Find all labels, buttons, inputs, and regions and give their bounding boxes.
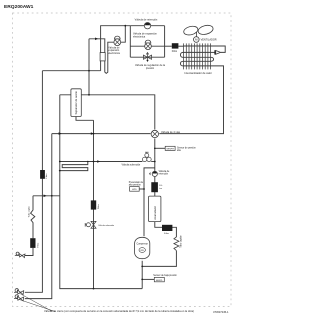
svg-text:Tubo capilar: Tubo capilar [27,206,30,218]
svg-text:SENPH: SENPH [166,148,174,150]
flow arrows [59,38,101,163]
check valve (top branch) [144,23,150,29]
wire middle branch y46 [130,45,164,47]
solenoid valve 2 on x93.5 line [85,221,96,228]
junction dot service line [51,195,53,197]
wire accumulator bottom to capillary [155,222,177,237]
wire 4-way south to accumulator [154,139,156,197]
svg-text:electrónica: electrónica [108,52,120,55]
wire compressor bottom drop [141,261,143,289]
wire SENPL branch [142,278,154,280]
wire EEV branch box left rail [129,26,131,58]
distributor [214,50,220,54]
muffler 2 [162,225,172,231]
solenoid valve [142,152,151,161]
svg-text:Separador de aceite: Separador de aceite [74,91,78,115]
capillary zigzag [174,237,179,251]
wire x93.5 drop [93,120,95,288]
EEV1 electronic expansion valve (middle branch) [145,40,151,43]
svg-text:alta presión: alta presión [129,184,142,187]
svg-text:Presostato de: Presostato de [129,181,144,184]
fan motor M [195,32,197,37]
flow arrow service line [44,195,47,198]
svg-text:HPS: HPS [132,189,137,191]
stop valve 2 (liquid line) [14,295,55,312]
svg-text:Válvula solenoide: Válvula solenoide [122,163,141,166]
compressor [135,237,150,258]
svg-text:Sensor de baja presión: Sensor de baja presión [153,274,177,277]
wire bottom branch y57.2 [130,56,164,58]
oil separator (tall rect on discharge line) [71,89,81,117]
wire capillary return to compressor bottom [142,251,176,267]
svg-text:INV: INV [140,250,144,252]
wire x51.8 drop [25,134,52,299]
svg-text:M: M [195,38,198,42]
svg-text:Compresor: Compresor [137,243,149,246]
dashed unit border [13,13,232,307]
svg-text:Filtro: Filtro [97,204,100,209]
wire long horizontal y94.8 [60,95,155,130]
wire service riser to valve3 [20,248,33,256]
subcool hx serpentine [60,162,88,171]
EEV2 electronic expansion valve (subcool) [114,36,120,39]
svg-text:alta: alta [177,149,181,152]
wire oil-separator drain [76,117,94,121]
filter on service riser [30,238,35,248]
muffler 1 [151,182,158,192]
wire top branch line to left corner [101,26,131,71]
svg-text:ERQ200AW1: ERQ200AW1 [4,4,34,10]
wire bypass vertical x89 [88,39,90,95]
stop valve 1 (gas line) [14,289,52,312]
svg-text:Sensor de presión: Sensor de presión [177,146,196,149]
fan propeller [183,25,199,36]
svg-text:Válvula de 4 vías: Válvula de 4 vías [161,131,181,134]
svg-text:Válvula de retención: Válvula de retención [135,19,158,22]
svg-text:Intercambiador de calor: Intercambiador de calor [185,71,212,75]
svg-text:Válvula de: Válvula de [159,171,170,173]
svg-text:Válvula solenoide: Válvula solenoide [98,225,115,227]
wire 4-way east from HX [159,66,223,134]
wire top branch y25.7 [130,25,164,27]
wire service riser x33 with capillary kink [31,196,35,238]
svg-text:4TW27245-1: 4TW27245-1 [213,310,229,314]
wire HPS branch [139,188,144,190]
wire EEV branch box right rail [164,26,166,58]
wire SENPH branch [155,147,165,149]
heat exchanger tube rows [180,46,213,66]
svg-text:Fil-: Fil- [159,185,162,187]
svg-text:VENTILADOR: VENTILADOR [201,39,217,42]
svg-text:Filtro: Filtro [172,50,178,53]
wire left drop x59.8 [60,95,142,289]
svg-text:Tubo capilar: Tubo capilar [180,235,183,248]
accumulator [149,196,161,222]
filter on liquid drop [40,170,45,179]
left U-bend rows4-5 [180,61,183,66]
filter (liquid line to HX) [172,43,179,48]
svg-text:Válvula de cierre (con compuer: Válvula de cierre (con compuerta de serv… [44,309,194,313]
svg-text:Acumulador: Acumulador [153,206,157,220]
svg-text:Filtro: Filtro [164,232,170,235]
wire horizontal y70.7 [42,70,100,72]
wire HX row1 to distributor loop [211,46,225,52]
wire EEV2 riser [121,26,125,43]
right U-bend rows3-4 [211,57,214,61]
wire HX row2 to distributor bar [211,51,215,53]
svg-text:retención: retención [159,173,169,176]
wire capillary twin from EEV2 with bottom hook [89,39,114,74]
wire left liquid drop x41.8 [25,71,43,293]
capillary tube body on twin line [100,53,105,61]
svg-text:tro: tro [159,187,162,190]
left U-bend rows2-3 [180,52,183,57]
heat exchanger fins [184,43,211,69]
svg-text:Filtro: Filtro [45,173,48,179]
wire 4-way west line y133.6 [52,133,151,135]
pressure regulating valve (bottom branch) [143,53,151,62]
SENPH high pressure sensor [165,146,175,150]
wire solenoid line y161.5 [60,161,143,163]
wire filter feed y46 [165,45,172,47]
svg-text:electrónica: electrónica [133,35,146,38]
svg-text:Filtro: Filtro [36,242,39,247]
4-way valve [151,130,158,137]
check valve 2 (discharge) [152,171,157,176]
wire discharge link from compressor top [144,168,155,236]
filter on x93.5 drop [91,200,96,209]
stop valve 3 (service port) [15,252,25,258]
svg-text:SENPL: SENPL [156,280,164,282]
wire service/charge line y195.8 [33,195,60,197]
svg-text:presión: presión [146,67,155,70]
